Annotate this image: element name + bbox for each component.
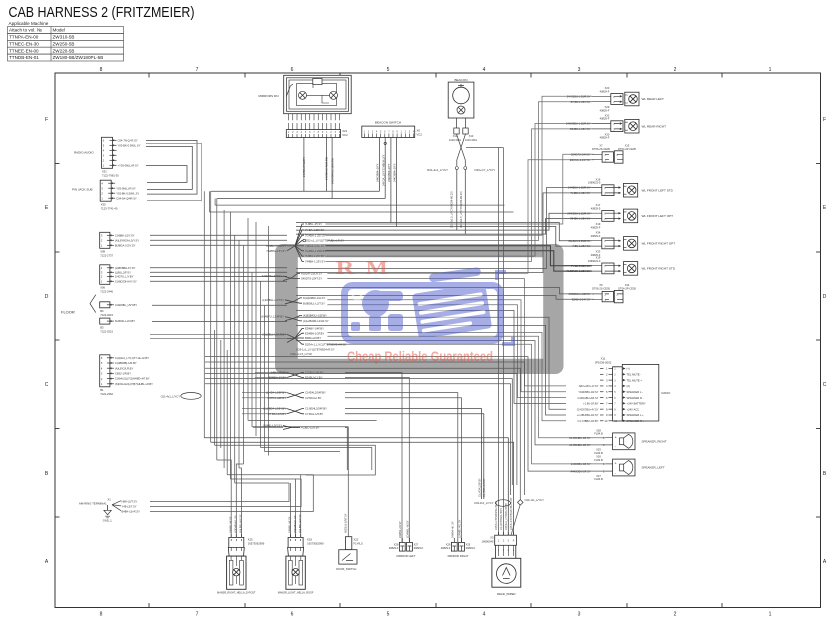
svg-text:FL84.B: FL84.B (594, 458, 603, 462)
node C03-1x1 (518, 498, 545, 505)
svg-text:C(H)4x1_L/T7MB+H7.BY: C(H)4x1_L/T7MB+H7.BY (505, 503, 508, 530)
svg-text:B4BLL2/4.BY: B4BLL2/4.BY (305, 336, 321, 340)
svg-text:ZW250-5B: ZW250-5B (53, 41, 75, 46)
wire trunk y198 (217, 198, 385, 200)
svg-text:ED4BH-1/2F.BY: ED4BH-1/2F.BY (305, 331, 324, 335)
junction node J9 (263, 424, 319, 430)
wire vertical bundle 14 (260, 281, 262, 447)
lamp unit WL FRONT LEFT STD with connector X16 (568, 177, 674, 197)
border frame with zone ticks and labels (55, 73, 821, 608)
svg-text:7122-0215: 7122-0215 (100, 329, 113, 333)
wire row y278 to X11 pin4 (327, 279, 566, 386)
svg-text:BU8D8LL-L2/T.SY: BU8D8LL-L2/T.SY (303, 301, 325, 305)
svg-text:X22: X22 (354, 538, 359, 542)
wire vertical bundle 15 (264, 305, 266, 451)
wire row y356 to speaker left pin2 (205, 357, 606, 472)
wire trunk y205 (215, 199, 504, 206)
svg-text:24KOB84+1/YY: 24KOB84+1/YY (387, 163, 391, 182)
svg-text:24YOA_L/YYT7MBLW.LYY: 24YOA_L/YYT7MBLW.LYY (381, 154, 385, 186)
svg-text:CH-DX7BU+4Y.SY: CH-DX7BU+4Y.SY (577, 407, 599, 411)
svg-text:H8H-L5/T.SY: H8H-L5/T.SY (122, 500, 138, 504)
wire am-ring fan (112, 501, 121, 511)
svg-text:C02-1x1.5_L/YCYBR(3M-M1.25): C02-1x1.5_L/YCYBR(3M-M1.25) (451, 191, 454, 228)
svg-text:2: 2 (674, 612, 677, 618)
svg-text:WL REAR LEFT: WL REAR LEFT (642, 97, 665, 101)
wire vertical bundle 6 (226, 350, 228, 475)
svg-text:C2TD4-H/.BY: C2TD4-H/.BY (305, 396, 322, 400)
lamp unit K25 MANSR_RIGHT_HELLA_D-POST (217, 514, 265, 594)
svg-text:3: 3 (578, 67, 581, 73)
wire row y447 (261, 448, 372, 471)
svg-text:RADIO AUDIO: RADIO AUDIO (74, 151, 94, 155)
svg-text:C04-7N-Q/-R.SY: C04-7N-Q/-R.SY (118, 138, 138, 142)
wire beacon lead cross a (457, 134, 466, 166)
label FLOOR with brace (61, 295, 96, 315)
svg-text:40829-F: 40829-F (600, 89, 610, 93)
svg-text:R24BN-1.25/Y.SY: R24BN-1.25/Y.SY (570, 127, 591, 131)
svg-text:G-RDABU+1R.SY: G-RDABU+1R.SY (578, 396, 599, 400)
wire elbow K25 c (239, 468, 241, 537)
svg-text:1: 1 (498, 549, 500, 552)
svg-text:MANSR_RIGHT_HELLA_D-POST: MANSR_RIGHT_HELLA_D-POST (217, 592, 256, 595)
svg-text:WL REAR RIGHT: WL REAR RIGHT (642, 124, 667, 128)
svg-text:16573062999: 16573062999 (248, 541, 265, 545)
svg-text:7Y-BA-1.25Y.SY: 7Y-BA-1.25Y.SY (305, 228, 325, 232)
svg-text:24W03BU-1.25/R.SY: 24W03BU-1.25/R.SY (566, 122, 591, 126)
wire labels mirror right risers (452, 519, 462, 538)
svg-text:8: 8 (100, 67, 103, 73)
svg-text:X13: X13 (469, 134, 474, 138)
wire row y336 to speaker right pin1 (327, 336, 606, 438)
wire drop K18 3 (290, 483, 292, 537)
svg-text:E24B+1-24Y.SY: E24B+1-24Y.SY (572, 297, 591, 301)
svg-text:Y03-BK-0.5W/L.SY: Y03-BK-0.5W/L.SY (118, 143, 141, 147)
svg-text:1120-3011: 1120-3011 (465, 138, 478, 142)
svg-text:RADIO: RADIO (662, 391, 672, 395)
svg-text:7123-7741-40: 7123-7741-40 (101, 206, 118, 210)
wire row K18 b (230, 478, 301, 480)
svg-text:6: 6 (291, 612, 294, 618)
svg-text:BEACON SWITCH: BEACON SWITCH (375, 121, 401, 125)
svg-text:C1-BD4L2/54F.BY: C1-BD4L2/54F.BY (305, 407, 327, 411)
svg-text:D: D (45, 294, 49, 300)
wire row J8 feed a (242, 408, 287, 410)
connector X31 RADIO AUDIO (74, 137, 141, 177)
wire row y222 to U5 pin1 (296, 223, 592, 241)
svg-text:24MB4-H/L.SY: 24MB4-H/L.SY (452, 521, 455, 538)
junction node J7 (266, 391, 326, 400)
speaker unit SPEAKER_LEFT X26/X27 (570, 455, 664, 481)
svg-text:A: A (823, 559, 827, 565)
wire loop radio outer (146, 143, 202, 200)
svg-text:C03-3x1_L/YCY: C03-3x1_L/YCY (474, 501, 494, 505)
svg-text:C1TD4-H2F.BY: C1TD4-H2F.BY (267, 396, 286, 400)
watermark RM stamp (275, 244, 564, 374)
svg-text:7122-7981-30: 7122-7981-30 (102, 174, 119, 178)
svg-text:(A): (A) (627, 384, 631, 388)
svg-text:C(H)BK-L5/Y.SY: C(H)BK-L5/Y.SY (115, 233, 135, 237)
svg-text:X1: X1 (108, 497, 112, 501)
lamp unit WL FRONT RIGHT STD with connector X19 (567, 256, 676, 276)
svg-text:2: 2 (606, 373, 608, 377)
svg-text:8: 8 (100, 612, 103, 618)
wire row y304 to X11 pin6 (327, 305, 566, 398)
svg-text:(A)L8Y2/LR.BY: (A)L8Y2/LR.BY (115, 366, 134, 370)
wire vertical bundle 16 (268, 226, 270, 456)
junction node J8 (263, 407, 327, 416)
svg-text:(A)L8Y8GA-L5/Y.SY: (A)L8Y8GA-L5/Y.SY (115, 238, 139, 242)
svg-text:(K)B3B43U-1/2F.BY: (K)B3B43U-1/2F.BY (303, 314, 327, 318)
svg-text:C02-1x1.5_L/YCYBR(3M-M1.25): C02-1x1.5_L/YCYBR(3M-M1.25) (460, 191, 463, 228)
svg-text:FL84.B: FL84.B (594, 432, 603, 436)
svg-text:40829-F: 40829-F (414, 546, 424, 550)
svg-text:X12: X12 (453, 134, 458, 138)
wire row B4-4 (150, 280, 287, 282)
svg-text:X31: X31 (102, 170, 107, 174)
connector B1 (100, 355, 153, 396)
svg-text:GND_1: GND_1 (103, 519, 112, 523)
wire row J5 feed a (150, 333, 287, 335)
svg-text:C34B0AA+1/2F.SY: C34B0AA+1/2F.SY (569, 292, 591, 296)
svg-text:C1-RD4BU-1R.SY: C1-RD4BU-1R.SY (569, 436, 591, 440)
svg-text:5: 5 (387, 612, 390, 618)
svg-text:DT06-2S-CE05: DT06-2S-CE05 (592, 286, 610, 290)
svg-text:MIRROR RIGHT: MIRROR RIGHT (448, 554, 469, 558)
svg-text:24KOB84+1/YY: 24KOB84+1/YY (376, 163, 380, 182)
wire am-ring c (150, 475, 313, 512)
svg-text:ZW310-5B: ZW310-5B (53, 35, 75, 40)
svg-text:DT04-2P-CE05: DT04-2P-CE05 (618, 286, 636, 290)
svg-text:F: F (823, 117, 826, 123)
svg-text:C: C (45, 382, 49, 388)
svg-text:2: 2 (674, 67, 677, 73)
svg-text:1440OBU-1R.SY: 1440OBU-1R.SY (571, 462, 591, 466)
svg-text:Y04DXBU-1R.SY: Y04DXBU-1R.SY (578, 390, 598, 394)
svg-text:F: F (45, 117, 48, 123)
svg-text:7-BN-1.25/Y.SY: 7-BN-1.25/Y.SY (572, 244, 590, 248)
svg-text:Y4MBL-M/.SY: Y4MBL-M/.SY (228, 516, 232, 533)
wire row B4-2 (150, 271, 287, 273)
svg-text:7122-2362: 7122-2362 (100, 392, 113, 396)
svg-text:B3: B3 (100, 325, 104, 329)
wire row y250 bold to U6 pin2 (325, 251, 592, 271)
wire vertical bundle 8 (234, 235, 236, 483)
wire X21 pin drop c (331, 138, 333, 199)
wire X6 pin drop d (396, 138, 398, 227)
lamp unit K18 MANSR_LIGHT_HELLA_ROOF (278, 514, 324, 594)
wire row B5 (152, 304, 287, 306)
svg-text:X28: X28 (394, 542, 399, 546)
wire row y344 to speaker left pin1 (327, 344, 606, 464)
lamp unit WL REAR RIGHT with connector X32 (566, 113, 666, 139)
wire row J7 feed a (242, 392, 287, 394)
svg-text:3: 3 (508, 549, 510, 552)
svg-text:+24V ACC: +24V ACC (627, 407, 640, 411)
wire J6 out to mirror left a (345, 373, 402, 543)
wire X6 pin drop c (390, 138, 392, 223)
svg-text:BEACON: BEACON (454, 78, 467, 82)
svg-text:A1-RD4BU-1R.SY: A1-RD4BU-1R.SY (569, 443, 590, 447)
svg-text:D(H)D3BU-1/H.SY: D(H)D3BU-1/H.SY (303, 296, 325, 300)
wire row y442 (211, 442, 514, 535)
svg-text:1120-3011: 1120-3011 (449, 138, 462, 142)
svg-text:1: 1 (606, 367, 608, 371)
svg-text:Y03-BK-0.5W/L.SY: Y03-BK-0.5W/L.SY (116, 191, 139, 195)
svg-text:1/4D7S_L/Y.BY: 1/4D7S_L/Y.BY (115, 275, 134, 279)
svg-text:MIRROR LEFT: MIRROR LEFT (397, 554, 416, 558)
svg-text:7Y-BN-1.25/Y.SY: 7Y-BN-1.25/Y.SY (571, 264, 591, 268)
svg-text:24Y02BU-1.25/R.SY: 24Y02BU-1.25/R.SY (567, 94, 591, 98)
svg-text:Y48-L5/T.SY: Y48-L5/T.SY (122, 505, 137, 509)
wire door switch riser (347, 427, 349, 537)
speaker unit SPEAKER_RIGHT X28/X25 (569, 429, 667, 455)
svg-text:FL84.B: FL84.B (594, 477, 603, 481)
wire C03 diag (511, 504, 520, 535)
svg-text:7B4BN-1.25/Y.SY: 7B4BN-1.25/Y.SY (570, 217, 591, 221)
svg-text:TEL MUTE -: TEL MUTE - (627, 373, 642, 377)
wire am-ring b (150, 479, 301, 507)
svg-text:24MB4-L/R.SY: 24MB4-L/R.SY (399, 521, 402, 538)
wire J7 out a (345, 393, 458, 543)
svg-text:A: A (45, 559, 49, 565)
svg-text:M: M (366, 258, 388, 279)
wire vertical bundle 7 (229, 212, 231, 479)
svg-text:OD2-x1_L/Y(1)T7E7UBL+LR.SY: OD2-x1_L/Y(1)T7E7UBL+LR.SY (305, 239, 344, 243)
svg-text:Cheap Reliable Guaranteed: Cheap Reliable Guaranteed (347, 349, 493, 364)
connector block X11 RADIO (577, 356, 671, 423)
svg-text:6: 6 (606, 396, 608, 400)
title text CAB HARNESS 2 (FRITZMEIER) (9, 4, 195, 21)
svg-text:C(L)4CYBR(D-HO)Y: C(L)4CYBR(D-HO)Y (500, 508, 503, 530)
junction node J2 (262, 271, 323, 280)
svg-text:TTNEC-EN-30: TTNEC-EN-30 (9, 41, 39, 46)
svg-text:FL84.B: FL84.B (594, 451, 603, 455)
svg-text:K18: K18 (307, 537, 312, 541)
svg-text:WL FRONT RIGHT OPT: WL FRONT RIGHT OPT (642, 242, 676, 246)
wire labels rear wiper risers (495, 497, 513, 530)
svg-text:24WB3U-1.25/R.SY: 24WB3U-1.25/R.SY (567, 211, 590, 215)
wire row y332 to X11 pin10 (327, 332, 566, 420)
wire row K18 c (235, 482, 289, 484)
wire loop radio pin1 to pin jack (146, 140, 197, 194)
switch DOOR_SWITCH X22 (336, 537, 363, 571)
svg-text:C(H8D8B)-1/R.BY: C(H8D8B)-1/R.BY (115, 361, 137, 365)
svg-text:B: B (823, 471, 827, 477)
wire row y420 (248, 419, 377, 421)
wire trunk y191 (211, 190, 380, 192)
svg-text:40829-F: 40829-F (600, 136, 610, 140)
wire vertical bundle 11 (247, 218, 249, 420)
svg-text:40829-F: 40829-F (591, 225, 601, 229)
svg-text:Y4MBL-M/.SY: Y4MBL-M/.SY (288, 516, 292, 533)
svg-text:C7.BA-L1/5.BY: C7.BA-L1/5.BY (268, 412, 286, 416)
wire row y325 to X11 pin9 (296, 325, 566, 415)
wire row J7 feed b (242, 397, 287, 399)
wire row y373 dangle (205, 373, 517, 485)
wire row y295 to X5 pin2 (296, 296, 594, 300)
svg-text:A440OBU-1R.SY: A440OBU-1R.SY (570, 469, 590, 473)
svg-text:(+): (+) (627, 367, 630, 371)
svg-text:ED4BY-1/4F.BY: ED4BY-1/4F.BY (305, 327, 324, 331)
junction node J1 (266, 222, 345, 263)
connector B4 (100, 302, 138, 317)
svg-text:X3: X3 (490, 536, 494, 540)
wire row B3-1 (150, 234, 287, 236)
svg-text:F1-RLS: F1-RLS (354, 542, 363, 546)
wire loop radio pin6 to pin jack (146, 166, 187, 183)
svg-text:ZW220-5B: ZW220-5B (53, 48, 75, 53)
svg-text:744BH-1.25Y.SY: 744BH-1.25Y.SY (305, 260, 325, 264)
wire labels beacon drops (451, 191, 464, 228)
svg-text:7: 7 (196, 612, 199, 618)
svg-text:VC2: VC2 (417, 133, 423, 137)
svg-text:3: 3 (578, 612, 581, 618)
wire vertical bundle 1 (210, 191, 212, 442)
wire row y235 to U1 pin1 (325, 96, 592, 235)
svg-text:B24BU+1Y.SY: B24BU+1Y.SY (269, 376, 287, 380)
svg-text:AM-RING TERMINAL: AM-RING TERMINAL (79, 502, 107, 506)
svg-text:B1: B1 (100, 388, 104, 392)
wire labels mirror left risers (399, 520, 409, 538)
svg-text:B24BU+1Y.BY: B24BU+1Y.BY (305, 376, 323, 380)
wire J8 out a (345, 409, 482, 499)
wire row y384 to C03 tail2 (205, 384, 511, 495)
svg-text:40829-F: 40829-F (600, 117, 610, 121)
motor unit REAR_WIPER X3 (482, 532, 521, 596)
wire vertical bundle 4 (220, 340, 222, 448)
wire J9 out (345, 428, 347, 471)
wire beacon drop b (464, 170, 466, 235)
svg-text:+24V BATTERY: +24V BATTERY (627, 402, 646, 406)
svg-text:+Y03-0N(L)-R.SY: +Y03-0N(L)-R.SY (118, 163, 139, 167)
svg-text:C(L)4D4L2/5F.BY: C(L)4D4L2/5F.BY (479, 478, 482, 497)
wire row J5 feed b (150, 338, 287, 340)
wire row y437 (204, 438, 508, 535)
wire row y426 to door switch (252, 426, 348, 428)
wire elbow K25 b (236, 464, 243, 537)
svg-text:SPEAKER_RIGHT: SPEAKER_RIGHT (642, 440, 667, 444)
svg-text:WL FRONT RIGHT STD: WL FRONT RIGHT STD (642, 267, 676, 271)
svg-text:10: 10 (605, 419, 608, 423)
svg-text:VC2: VC2 (342, 133, 348, 137)
svg-text:SPEAKER R +: SPEAKER R + (627, 419, 645, 423)
wire labels C-column risers (479, 478, 487, 497)
svg-text:NAV+24V+1Y.SY: NAV+24V+1Y.SY (579, 384, 599, 388)
svg-text:DT04-2P-CE05: DT04-2P-CE05 (618, 147, 636, 151)
svg-text:S40D7S-L54T.SY: S40D7S-L54T.SY (301, 277, 322, 281)
wire label door switch (345, 513, 348, 533)
wire X6 pin drop b (384, 138, 386, 199)
wire wiper vertical b (502, 148, 504, 536)
svg-text:B7-BN-1.25/Y.SY: B7-BN-1.25/Y.SY (571, 100, 591, 104)
svg-text:JP1036-0002: JP1036-0002 (595, 360, 612, 364)
wire vertical bundle 12 (251, 272, 253, 426)
wire X21 pin drop a (303, 138, 305, 192)
wire drop K18 1 (300, 475, 302, 538)
wire row B3-2 (150, 239, 287, 241)
svg-text:X26: X26 (446, 542, 451, 546)
svg-text:7L4BN-1.25/Y.SY: 7L4BN-1.25/Y.SY (570, 191, 590, 195)
wire vertical bundle 10 (243, 245, 245, 464)
svg-text:C(H)4x2(L)7(2)HH8D+H7.BY: C(H)4x2(L)7(2)HH8D+H7.BY (115, 377, 150, 381)
svg-text:(L)4D4-L2/5F.BY: (L)4D4-L2/5F.BY (266, 391, 286, 395)
svg-text:24OVBRBL0.5W/LRW: 24OVBRBL0.5W/LRW (330, 158, 334, 184)
svg-text:E24OA+1-24Y.SY: E24OA+1-24Y.SY (570, 158, 591, 162)
svg-text:(L)BLL2/F.SY: (L)BLL2/F.SY (115, 270, 131, 274)
svg-text:4: 4 (483, 612, 486, 618)
svg-text:SPEAKER L -: SPEAKER L - (627, 390, 644, 394)
ground terminal AM-RING TERMINAL X1 GND_1 (79, 497, 140, 522)
svg-text:2: 2 (503, 549, 505, 552)
wire row y378 dangle (205, 379, 512, 485)
svg-text:C/AD6BL_L5/Y.BY: C/AD6BL_L5/Y.BY (115, 303, 137, 307)
svg-text:4: 4 (483, 67, 486, 73)
wire row J9 feed (253, 427, 283, 429)
svg-text:C1-Y2BBU-1R.BY: C1-Y2BBU-1R.BY (577, 419, 598, 423)
connector pair X5 / X14 (569, 283, 637, 303)
svg-text:(S)D4B-H/L.SY: (S)D4B-H/L.SY (234, 515, 238, 533)
wire row J6 feed b (255, 377, 287, 379)
svg-text:D31+1x1_L/YCY: D31+1x1_L/YCY (427, 168, 448, 172)
svg-text:WL FRONT LEFT OPT: WL FRONT LEFT OPT (642, 214, 674, 218)
svg-text:C04-9A-Q/4R.SY: C04-9A-Q/4R.SY (116, 196, 137, 200)
wire row y310 to X11 pin7 (296, 310, 566, 403)
svg-text:(A)L8BL-H/Y.SY: (A)L8BL-H/Y.SY (298, 514, 302, 533)
svg-text:5: 5 (387, 67, 390, 73)
svg-text:B48H-L5+R.SY: B48H-L5+R.SY (122, 510, 141, 514)
svg-text:C7.BAL-1/5.BY: C7.BAL-1/5.BY (305, 412, 323, 416)
connector pair X7 / X15 (570, 144, 637, 164)
junction node J6 (269, 371, 324, 380)
svg-text:(S)4BL-L5/Y.SY: (S)4BL-L5/Y.SY (263, 424, 282, 428)
svg-text:TEL MUTE +: TEL MUTE + (627, 378, 643, 382)
svg-text:REAR_WIPER: REAR_WIPER (497, 592, 516, 596)
wire vertical bundle 0 (203, 191, 205, 438)
wire row y226 to U5 pin2 (296, 227, 592, 247)
svg-text:WL FRONT LEFT STD: WL FRONT LEFT STD (642, 188, 674, 192)
wire row y276 to X7 pin2 (327, 160, 594, 274)
svg-text:1969023-0: 1969023-0 (588, 181, 601, 185)
svg-text:C04D7U-1/4V.8Y: C04D7U-1/4V.8Y (571, 152, 591, 156)
svg-text:SL8D3L-L2/4.BY: SL8D3L-L2/4.BY (115, 319, 135, 323)
svg-text:40829-F: 40829-F (591, 234, 601, 238)
svg-text:C: C (823, 382, 827, 388)
connector X08 (100, 232, 140, 257)
wire row y261 to U2 pin2 (325, 129, 592, 262)
svg-text:A52BU(-1)/VT.SY: A52BU(-1)/VT.SY (345, 513, 348, 533)
svg-text:9: 9 (606, 413, 608, 417)
svg-text:X30: X30 (101, 202, 106, 206)
svg-text:TTNEE-EN-00: TTNEE-EN-00 (9, 48, 39, 53)
svg-text:7122-0215: 7122-0215 (100, 313, 113, 317)
wire J8 out b (345, 414, 484, 499)
svg-text:BUBGA-0.5/Y.SY: BUBGA-0.5/Y.SY (115, 243, 136, 247)
svg-text:5: 5 (606, 390, 608, 394)
svg-text:RL8BN2U-1.25/Y.SY: RL8BN2U-1.25/Y.SY (567, 269, 591, 273)
svg-text:TTNDB-EN-01: TTNDB-EN-01 (9, 55, 39, 60)
svg-text:D: D (823, 294, 827, 300)
svg-text:X06: X06 (100, 286, 105, 290)
wire row y317 to X11 pin8 (296, 317, 566, 409)
svg-text:Attach to vol. №: Attach to vol. № (9, 28, 42, 33)
svg-text:24HB2U-1.25/R.SY: 24HB2U-1.25/R.SY (568, 186, 591, 190)
wire row y245 bold to U6 pin1 (325, 246, 592, 266)
svg-text:4: 4 (513, 549, 515, 552)
svg-text:B4: B4 (100, 309, 104, 313)
svg-text:(A)L8BL-H/Y.SY: (A)L8BL-H/Y.SY (239, 514, 243, 533)
svg-text:+1.2BU0BL-1R.SY: +1.2BU0BL-1R.SY (577, 413, 599, 417)
svg-text:C03-1x1_L/YCY: C03-1x1_L/YCY (525, 498, 545, 502)
